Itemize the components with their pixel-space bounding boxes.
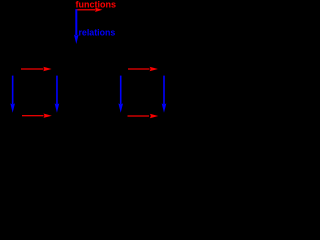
left square: right blue arrow	[55, 76, 60, 113]
right square: left blue arrow	[118, 76, 123, 113]
svg-text:relations: relations	[79, 28, 116, 39]
left square: left blue arrow	[10, 76, 15, 113]
right square: bottom red arrow	[128, 114, 159, 118]
right square: right blue arrow	[162, 76, 167, 113]
right square: top red arrow	[128, 67, 158, 71]
left square: top red arrow	[21, 67, 52, 71]
left square: bottom red arrow	[22, 114, 52, 118]
legend red arrow (functions)	[76, 8, 103, 12]
legend blue arrow (relations)	[74, 9, 79, 44]
